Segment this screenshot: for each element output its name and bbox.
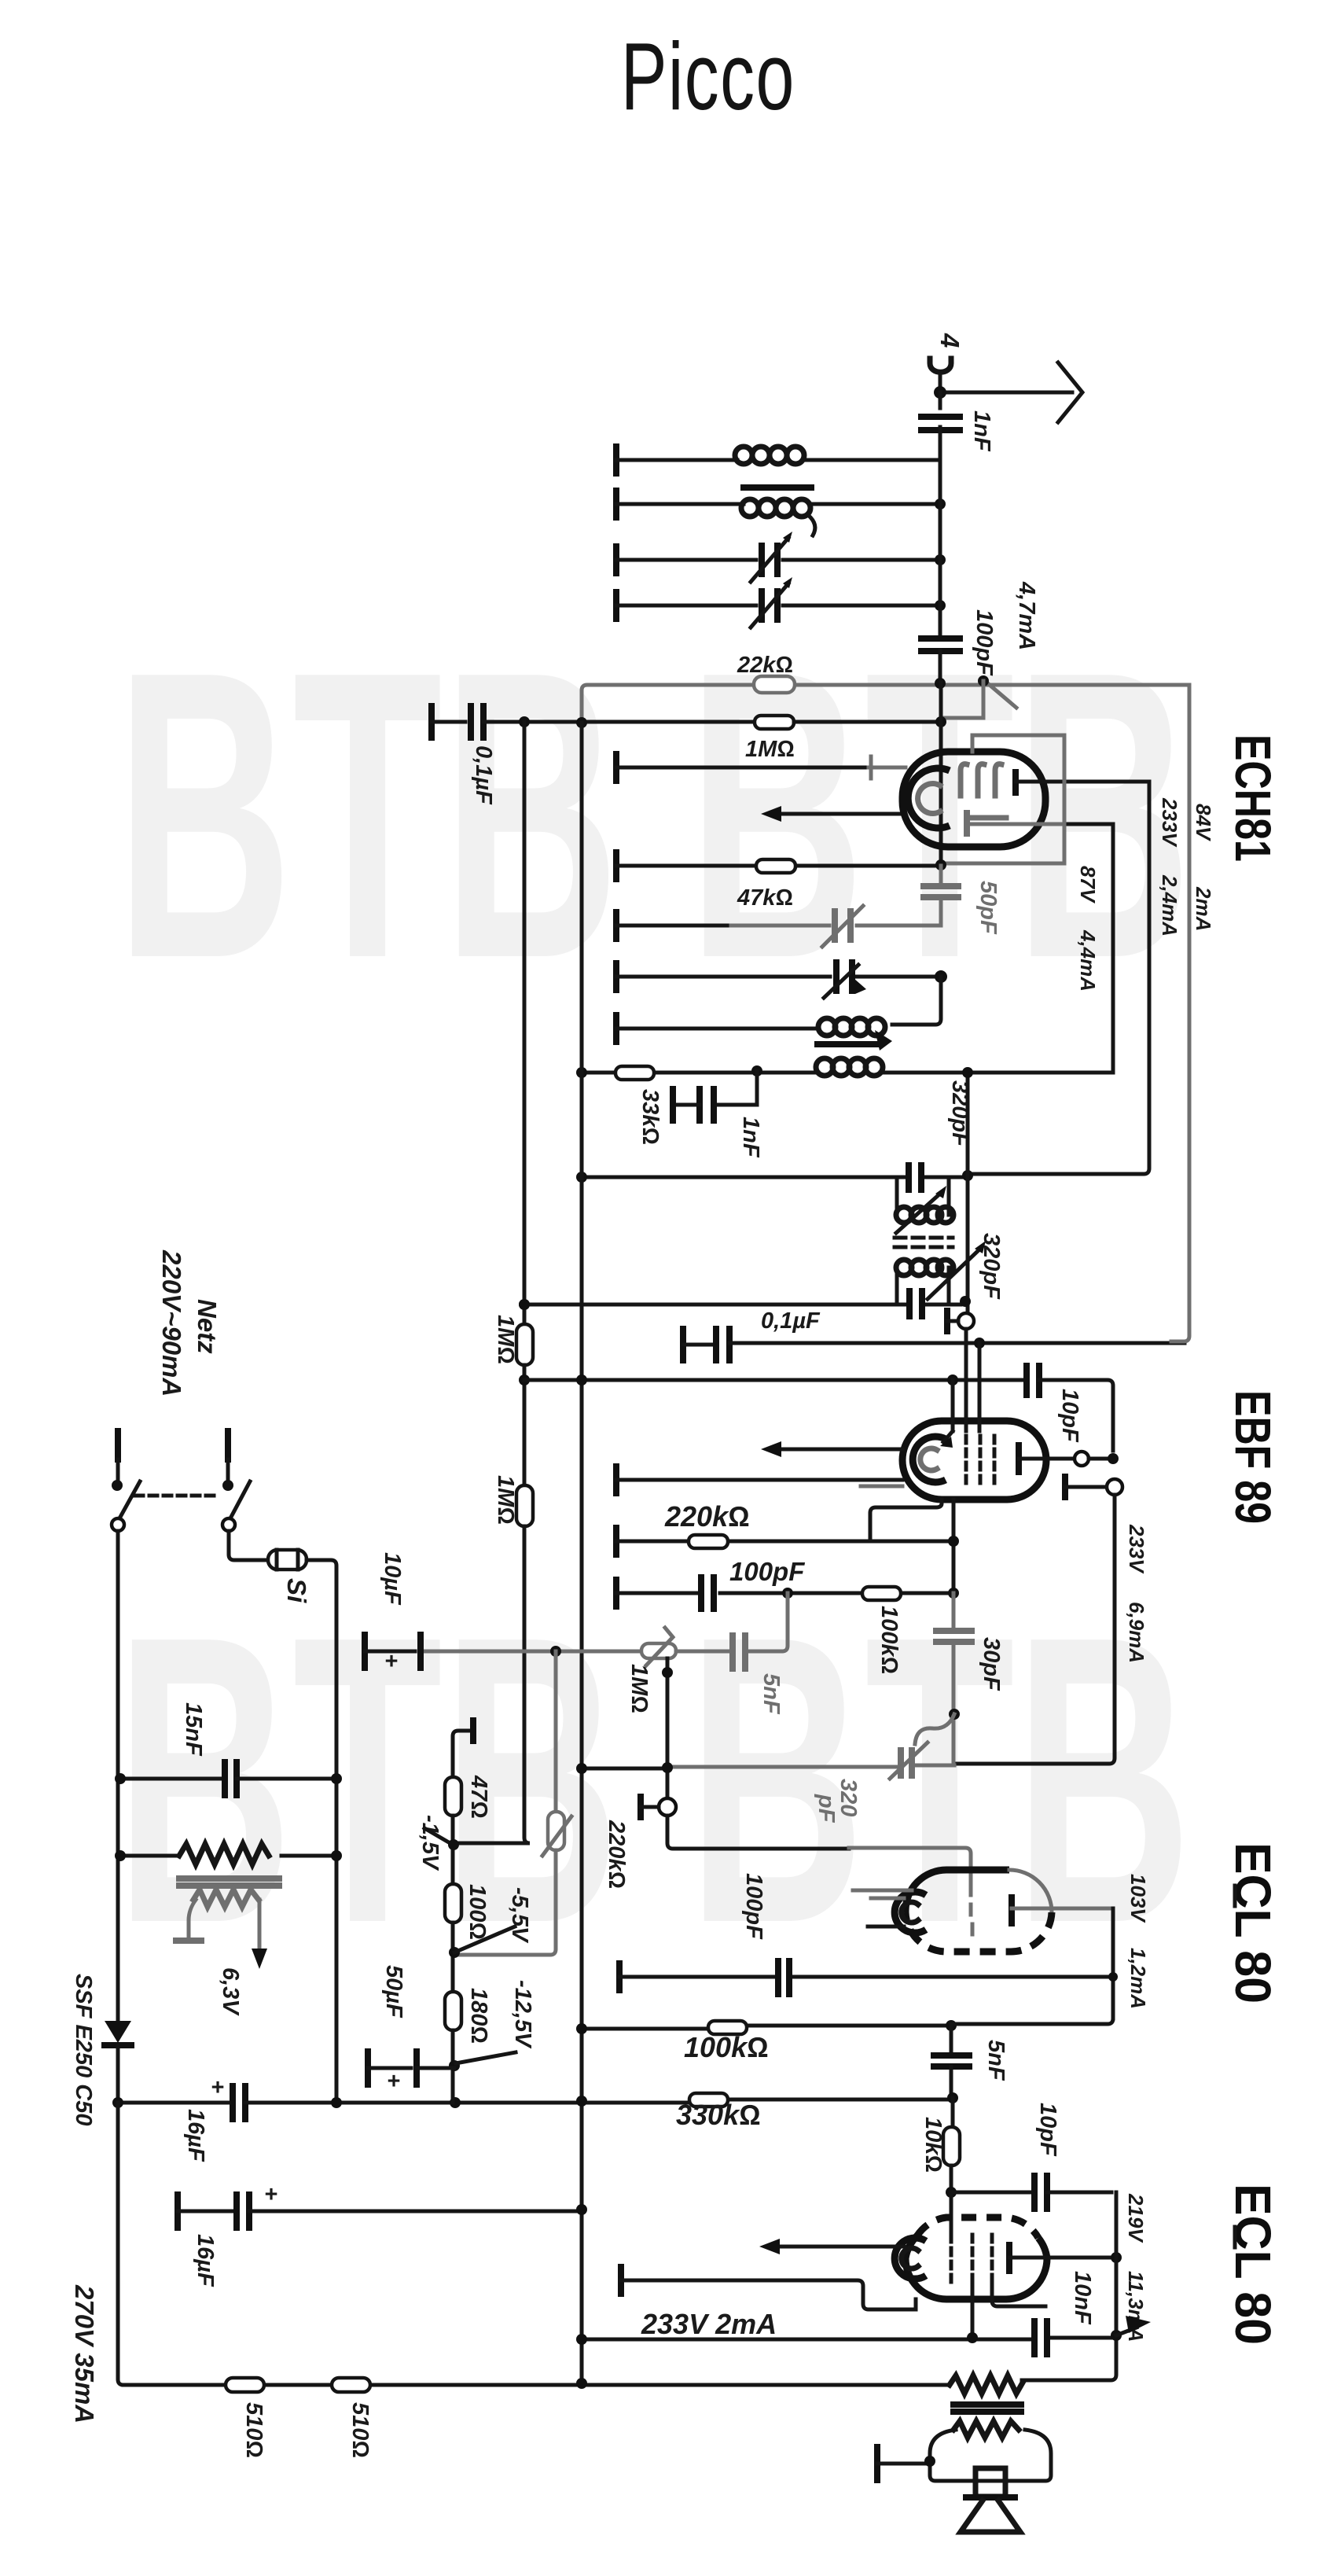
wire AGC bus gray (582, 685, 1189, 723)
wire ECH81 anode drop (968, 782, 1149, 1174)
diode SSF E250 C50 (71, 1974, 131, 2125)
svg-text:1MΩ: 1MΩ (745, 737, 795, 762)
node wiper junction (662, 1667, 673, 1678)
node cathode junction 33k (576, 1067, 587, 1078)
svg-text:100Ω: 100Ω (465, 1884, 490, 1940)
svg-text:100pF: 100pF (741, 1873, 766, 1940)
tube ECL80 first anode (1012, 1897, 1110, 1923)
capacitor 1nF antenna (921, 392, 994, 464)
potentiometer 220kOhm volume (455, 1651, 629, 1955)
node volume top junction (550, 1646, 561, 1657)
svg-text:16µF: 16µF (183, 2109, 208, 2162)
svg-text:5nF: 5nF (983, 2040, 1009, 2081)
wire output anode vertical (1022, 2192, 1116, 2380)
wire antenna bus vertical (939, 460, 942, 634)
tube ECL80 first underline (1233, 1886, 1237, 1906)
tube ECL80 first grid gray (971, 1885, 972, 1934)
wire volume top gray (425, 1650, 640, 1654)
svg-text:50µF: 50µF (381, 1965, 406, 2018)
mains plug pins (118, 1431, 228, 1481)
wire triode grid arrow (761, 806, 904, 822)
svg-text:47kΩ: 47kΩ (737, 885, 793, 911)
wire antenna coil rail (616, 447, 940, 473)
svg-text:Si: Si (282, 1578, 311, 1603)
wire EBF89 HT drop (954, 1495, 1115, 1764)
node AGC junction grid (978, 675, 989, 686)
node AF junction (782, 1588, 793, 1599)
trimmer capacitor 320pF IF (814, 1714, 954, 1823)
node coil bus junctions (935, 499, 946, 611)
svg-text:22kΩ: 22kΩ (737, 653, 793, 678)
wire EBF89 anode to HT (1089, 1457, 1113, 1461)
wire osc tank top (582, 1176, 968, 1179)
svg-text:6,9mA: 6,9mA (1125, 1602, 1148, 1663)
node wiper cross (662, 1762, 673, 1773)
capacitor 5nF AF gray (676, 1593, 788, 1715)
node diode junction 220k (948, 1536, 959, 1547)
capacitor 5nF AF2 (934, 2026, 1009, 2098)
wire EBF grid rail (524, 1378, 1022, 1382)
svg-text:4,4mA: 4,4mA (1076, 929, 1100, 992)
wire mains left leg (116, 1531, 120, 2019)
svg-text:84V: 84V (1192, 804, 1215, 842)
svg-text:100kΩ: 100kΩ (876, 1606, 902, 1674)
svg-text:320pF: 320pF (979, 1233, 1004, 1300)
transformer heater secondary (176, 1890, 267, 2016)
resistor 220kOhm (664, 1500, 750, 1548)
capacitor 10uF bias (365, 1552, 421, 1674)
tube ECL80 second cathode (895, 2238, 926, 2279)
capacitor 1nF cathode (673, 1071, 763, 1158)
node divider junction top (519, 1299, 530, 1310)
wire EBF89 AGC arrow (761, 1441, 902, 1457)
wire 100pF grid rail (619, 1963, 1113, 1990)
inductor antenna coil L1 (735, 447, 804, 464)
transformer output core (953, 2405, 1021, 2412)
capacitor 15nF line (115, 1702, 342, 1795)
svg-text:ECH81: ECH81 (1225, 734, 1281, 862)
transformer oscillator secondary (896, 1260, 953, 1305)
node AVC junction right (576, 717, 587, 728)
tube ECL80 second underline (1233, 2227, 1237, 2247)
svg-text:6,3V: 6,3V (218, 1967, 243, 2016)
wire grid stopper rail (576, 1972, 1118, 2034)
svg-text:50pF: 50pF (975, 881, 1001, 935)
capacitor 30pF (936, 1593, 1004, 1764)
resistor 100kOhm detector (862, 1587, 902, 1674)
svg-text:5nF: 5nF (759, 1673, 784, 1715)
capacitor 0,1uF coupling (683, 1308, 1185, 1360)
svg-text:2,4mA: 2,4mA (1158, 874, 1181, 937)
resistor 100kOhm AF (684, 2021, 769, 2063)
svg-text:+: + (384, 1649, 398, 1674)
svg-text:233V 2mA: 233V 2mA (641, 2308, 777, 2340)
potentiometer wiper symbol (641, 1628, 676, 1665)
wire ECL80 first anode drop (1111, 1908, 1115, 2018)
wire mixer bus vertical (580, 723, 584, 2383)
wire ECL80 second grid2 pin (971, 2282, 975, 2338)
svg-text:1MΩ: 1MΩ (493, 1315, 518, 1364)
node EBF grid junction (576, 1374, 587, 1386)
wire IF2 gray drop (1171, 685, 1189, 1341)
speaker ground stub (877, 2447, 935, 2480)
node AGC junction at bus (935, 678, 946, 689)
node tank top right (962, 1170, 973, 1181)
switch mains double-pole (112, 1480, 250, 1531)
tube ECL80 second anode (1009, 2245, 1111, 2271)
svg-text:16µF: 16µF (193, 2234, 218, 2287)
wire output grid drop (950, 2192, 953, 2231)
label 4,7mA with leader (985, 581, 1039, 708)
tube EBF89 envelope U2 (902, 1421, 1046, 1500)
antenna terminal 4 (930, 333, 964, 392)
svg-text:1nF: 1nF (738, 1117, 763, 1158)
node antenna junction (934, 386, 946, 399)
transformer power core (179, 1879, 279, 1886)
resistor 10kOhm (920, 2098, 960, 2192)
svg-text:270V 35mA: 270V 35mA (70, 2284, 99, 2423)
resistor 1MOhm vertical 2 (454, 1475, 533, 1843)
wire detector drop to IF (892, 977, 941, 1025)
tube ECL80 first cathode (868, 1892, 926, 1933)
svg-text:180Ω: 180Ω (466, 1988, 491, 2044)
wire output rail bottom (123, 2378, 950, 2389)
node osc grid junction (960, 1296, 971, 1307)
tube ECL80 first heater stubs gray (853, 1890, 912, 1898)
resistor 510Ohm 1 (226, 2378, 266, 2458)
capacitor 100pF detector (701, 1557, 805, 1609)
label Netz 220V 90mA (157, 1249, 222, 1397)
capacitor 16uF second (178, 2182, 587, 2287)
resistor 47kOhm (737, 859, 795, 911)
svg-text:BTB BTB: BTB BTB (116, 586, 1192, 1043)
node AVC junction left (519, 716, 530, 727)
capacitor 0,1uF AVC (432, 706, 755, 805)
svg-text:103V: 103V (1126, 1874, 1150, 1923)
wire ECH81 grid2 loop gray (972, 735, 1064, 863)
resistor 330kOhm (676, 2093, 761, 2131)
transformer power primary (115, 1844, 342, 1864)
transformer IF secondary winding (816, 1058, 883, 1076)
wire B+ arrow (1116, 2316, 1151, 2335)
svg-text:0,1µF: 0,1µF (471, 745, 496, 805)
wire mains right leg (229, 1531, 268, 1560)
svg-text:233V: 233V (1125, 1524, 1148, 1574)
wire detector bus vertical (939, 683, 943, 866)
svg-text:10nF: 10nF (1070, 2271, 1095, 2325)
node 330k junction (947, 2092, 958, 2103)
node coupling junction (974, 1338, 985, 1349)
resistor 22kOhm (737, 653, 795, 693)
svg-text:+: + (211, 2075, 224, 2100)
wire IF return rail (582, 1765, 954, 1768)
transformer IF primary winding (818, 1018, 892, 1051)
capacitor 10pF (1027, 1366, 1113, 1451)
tube ECH81 envelope U1 (902, 752, 1045, 847)
svg-text:220V~90mA: 220V~90mA (157, 1249, 186, 1397)
svg-text:10pF: 10pF (1035, 2103, 1060, 2157)
wire HT rail B1 (112, 2075, 953, 2162)
wire coupling coil rail (616, 491, 940, 517)
resistor 100Ohm (445, 1884, 490, 1940)
tube EBF89 anode (1019, 1445, 1074, 1472)
node IF return junction (576, 1763, 587, 1774)
resistor 1MOhm grid leak (745, 716, 941, 762)
node EBF grid tap (947, 1374, 958, 1386)
svg-text:330kΩ: 330kΩ (676, 2099, 761, 2131)
tube ECH81 anode bar (1016, 772, 1149, 793)
svg-text:100pF: 100pF (729, 1557, 805, 1586)
wire mains left to bottom (118, 2103, 226, 2385)
wire ECL80 second cathode stub (621, 2267, 916, 2309)
tube EBF89 grid pins top (940, 1329, 979, 1448)
transformer output secondary (953, 2421, 1019, 2438)
capacitor 320pF osc1 (909, 1165, 921, 1190)
svg-text:1MΩ: 1MΩ (493, 1475, 518, 1525)
capacitor 50pF gray (924, 866, 1001, 935)
wire tank branch vertical (966, 1073, 970, 1319)
resistor 1MOhm vertical 1 (493, 722, 533, 1365)
svg-text:-5,5V: -5,5V (507, 1887, 532, 1944)
speaker cone (961, 2497, 1020, 2532)
tube ECL80 first envelope U3 (906, 1870, 1052, 1952)
transformer output primary (950, 2375, 1023, 2394)
resistor 47Ohm (445, 1775, 491, 1819)
svg-text:1nF: 1nF (969, 410, 994, 452)
capacitor 50uF (368, 1965, 454, 2094)
wire wiper drop (666, 1658, 670, 1798)
resistor 33kOhm (615, 1066, 663, 1145)
capacitor 320pF osc2 (909, 1233, 1004, 1316)
terminal osc grid circle (947, 1311, 974, 1331)
node diode junction 100k (948, 1588, 959, 1599)
wire ground stub k-line (616, 912, 941, 939)
capacitor 10nF (1034, 2271, 1095, 2354)
node output anode junction (1111, 2252, 1122, 2263)
tube EBF89 cathode (913, 1437, 946, 1482)
svg-text:4,7mA: 4,7mA (1014, 581, 1039, 650)
wire ECL80 second AGC arrow (759, 2239, 904, 2254)
svg-text:510Ω: 510Ω (347, 2402, 373, 2458)
svg-text:Netz: Netz (193, 1299, 222, 1354)
svg-text:1,2mA: 1,2mA (1126, 1948, 1150, 2009)
trimmer capacitor antenna B (751, 577, 792, 627)
node output grid junction (946, 2187, 957, 2198)
wire EBF89 cathode return (870, 1500, 942, 1541)
node grid bus junction (935, 716, 946, 727)
label -1,5V with leader (417, 1815, 453, 1871)
tube ECL80 second grids dashed (951, 2235, 992, 2282)
svg-text:10pF: 10pF (1057, 1389, 1082, 1443)
trimmer capacitor padder A (822, 906, 863, 947)
svg-text:-1,5V: -1,5V (417, 1815, 443, 1871)
svg-text:100pF: 100pF (972, 609, 997, 676)
wire trimmer rail A (616, 546, 940, 573)
wire IF primary rail (616, 1015, 817, 1042)
tube ECH81 cathode bar (967, 813, 1113, 834)
svg-text:0,1µF: 0,1µF (761, 1308, 821, 1334)
wire AF takeoff rail (616, 1580, 953, 1606)
wire divider mid (523, 1365, 527, 1485)
bias chain stub (453, 1720, 473, 1777)
capacitor 100pF antenna (921, 609, 997, 683)
wire screen bypass rail (616, 852, 1064, 879)
svg-text:33kΩ: 33kΩ (637, 1089, 663, 1145)
tube ECH81 grids gray (961, 764, 1006, 818)
node bias junction 3 (449, 1980, 535, 2103)
terminal EBF89 pin circle (1065, 1477, 1122, 1497)
antenna symbol arrow (940, 362, 1082, 422)
wire ECL80 second grid3 pin (992, 2282, 1045, 2306)
wire trimmer rail B (616, 592, 940, 619)
svg-text:+: + (264, 2182, 277, 2207)
tube ECL80 second envelope U4 (906, 2217, 1047, 2299)
wire detector diode rail (616, 1528, 953, 1555)
svg-text:SSF E250 C50: SSF E250 C50 (71, 1974, 96, 2125)
transformer IF core (817, 1041, 877, 1047)
svg-text:Picco: Picco (621, 23, 795, 131)
wire anode supply rail (576, 2330, 1122, 2345)
svg-text:47Ω: 47Ω (466, 1775, 491, 1819)
svg-text:pF: pF (814, 1794, 839, 1823)
tube ECH81 inner cathode gray (918, 783, 940, 813)
tube EBF89 grids dashed (966, 1436, 994, 1485)
wire AGC drop to grid (941, 681, 983, 718)
svg-text:2mA: 2mA (1192, 886, 1215, 931)
svg-text:ECL 80: ECL 80 (1225, 1842, 1281, 2004)
svg-text:220kΩ: 220kΩ (664, 1500, 750, 1533)
node EBF89 anode junction (1108, 1453, 1119, 1464)
trimmer capacitor padder B (824, 962, 866, 998)
node tank top left (576, 1172, 587, 1183)
node divider junction mid (519, 1374, 530, 1386)
node cathode cap junction (751, 1065, 762, 1076)
wire phono to ECL grid (667, 1816, 971, 1885)
resistor 180Ohm (445, 1988, 491, 2044)
wire osc tank bottom (524, 1303, 961, 1307)
svg-text:4: 4 (935, 333, 964, 348)
svg-text:87V: 87V (1076, 866, 1100, 904)
node screen junction (935, 859, 946, 870)
node bias junction 2 (449, 1887, 532, 1992)
wire ECH81 cathode drop (1111, 824, 1115, 1073)
svg-text:ECL 80: ECL 80 (1225, 2184, 1281, 2345)
transformer oscillator primary (896, 1177, 953, 1233)
wire hexode grid g1 (616, 754, 906, 781)
node tank rail corner (962, 1067, 973, 1078)
transformer oscillator core dashed (895, 1238, 953, 1247)
node bias junction 1 (448, 1816, 459, 1884)
svg-text:233V: 233V (1158, 797, 1181, 848)
node IF filter junction (949, 1709, 960, 1720)
wire EBF89 heater stub (616, 1466, 902, 1493)
svg-text:220kΩ: 220kΩ (604, 1820, 629, 1889)
svg-text:100kΩ: 100kΩ (684, 2031, 769, 2063)
node detector junction (935, 970, 947, 983)
inductor coupling coil L2 with core (741, 488, 815, 535)
wire ground stub osc (616, 963, 941, 990)
svg-text:1MΩ: 1MΩ (626, 1664, 652, 1713)
speaker circuit loop (930, 2430, 1051, 2481)
wire EBF89 diode pin (952, 1500, 956, 1631)
svg-text:30pF: 30pF (979, 1637, 1004, 1691)
svg-text:-12,5V: -12,5V (510, 1980, 535, 2049)
capacitor 10pF output (951, 2103, 1111, 2209)
capacitor 100pF NFB (741, 1873, 789, 1994)
tube ECH81 triode cathode (908, 768, 950, 828)
node tank bottom left (519, 1299, 530, 1310)
resistor 510Ohm 2 (332, 2378, 373, 2458)
speaker magnet (975, 2468, 1005, 2497)
svg-text:+: + (387, 2069, 400, 2094)
svg-text:15nF: 15nF (181, 1702, 206, 1757)
wire cathode rail 33k (582, 1071, 1113, 1075)
svg-text:510Ω: 510Ω (241, 2402, 266, 2458)
svg-text:EBF 89: EBF 89 (1225, 1390, 1281, 1524)
svg-text:10kΩ: 10kΩ (920, 2117, 946, 2173)
svg-text:219V: 219V (1124, 2193, 1148, 2243)
terminal EBF89 anode circle (1075, 1452, 1089, 1466)
fuse Si (268, 1550, 336, 2103)
trimmer capacitor antenna A (751, 532, 792, 582)
svg-text:10µF: 10µF (380, 1552, 405, 1606)
terminal phono input (641, 1797, 676, 1817)
